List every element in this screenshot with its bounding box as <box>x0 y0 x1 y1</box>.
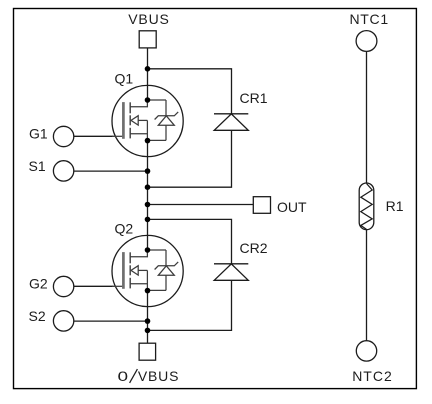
terminal S1 <box>29 158 74 181</box>
wire CR2 top branch <box>148 219 232 263</box>
junction CR2 top <box>145 217 151 223</box>
transistor Q1 <box>112 70 183 156</box>
svg-text:NTC1: NTC1 <box>350 11 389 27</box>
junction VBUS/CR1 <box>145 66 151 72</box>
wire S1 to node <box>74 170 148 172</box>
wire CR1 top branch <box>148 69 232 114</box>
wire Q2 source down to pad <box>147 291 149 344</box>
wire S2 to node <box>74 320 148 322</box>
svg-text:G1: G1 <box>29 125 48 141</box>
diode CR1 <box>214 90 268 130</box>
pad 0/VBUS <box>139 343 156 360</box>
svg-text:R1: R1 <box>386 198 404 214</box>
wire NTC1 to R1 <box>366 51 368 183</box>
junction CR1 bottom <box>145 184 151 190</box>
svg-text:NTC2: NTC2 <box>352 368 393 384</box>
svg-text:VBUS: VBUS <box>138 368 179 384</box>
terminal NTC2 <box>352 341 393 385</box>
terminal G1 <box>29 125 74 146</box>
wire CR1 bottom branch <box>148 130 232 187</box>
diode CR2 <box>214 240 268 280</box>
junction OUT <box>145 202 151 208</box>
svg-text:S1: S1 <box>29 158 46 174</box>
terminal G2 <box>29 275 74 296</box>
transistor Q2 <box>112 220 183 306</box>
wire CR2 bottom branch <box>148 280 232 330</box>
junction Q2 drain <box>145 247 151 253</box>
junction S2 <box>145 318 151 324</box>
pad VBUS <box>139 31 156 48</box>
terminal NTC1 <box>350 11 389 51</box>
terminal S2 <box>29 308 74 331</box>
wire into Q1 drain <box>147 69 149 100</box>
svg-text:S2: S2 <box>29 308 46 324</box>
junction Q2 source <box>145 288 151 294</box>
svg-text:VBUS: VBUS <box>128 11 169 27</box>
wire R1 to NTC2 <box>366 230 368 341</box>
wire G2 <box>74 285 114 287</box>
junction Q1 source <box>145 138 151 144</box>
wire OUT <box>148 204 254 206</box>
svg-text:OUT: OUT <box>277 199 307 215</box>
pad OUT <box>253 197 270 214</box>
junction Q1 drain <box>145 97 151 103</box>
svg-text:Q1: Q1 <box>115 70 134 86</box>
thermistor R1 <box>359 183 404 230</box>
svg-text:G2: G2 <box>29 275 48 291</box>
junction CR2 bottom <box>145 328 151 334</box>
wire VBUS pad to junction <box>147 48 149 69</box>
wire G1 <box>74 135 114 137</box>
svg-text:0: 0 <box>118 368 129 384</box>
svg-text:CR1: CR1 <box>240 90 268 106</box>
wire Q1 source to Q2 drain <box>147 141 149 250</box>
svg-text:Q2: Q2 <box>115 220 134 236</box>
svg-text:CR2: CR2 <box>240 240 268 256</box>
junction S1 <box>145 168 151 174</box>
